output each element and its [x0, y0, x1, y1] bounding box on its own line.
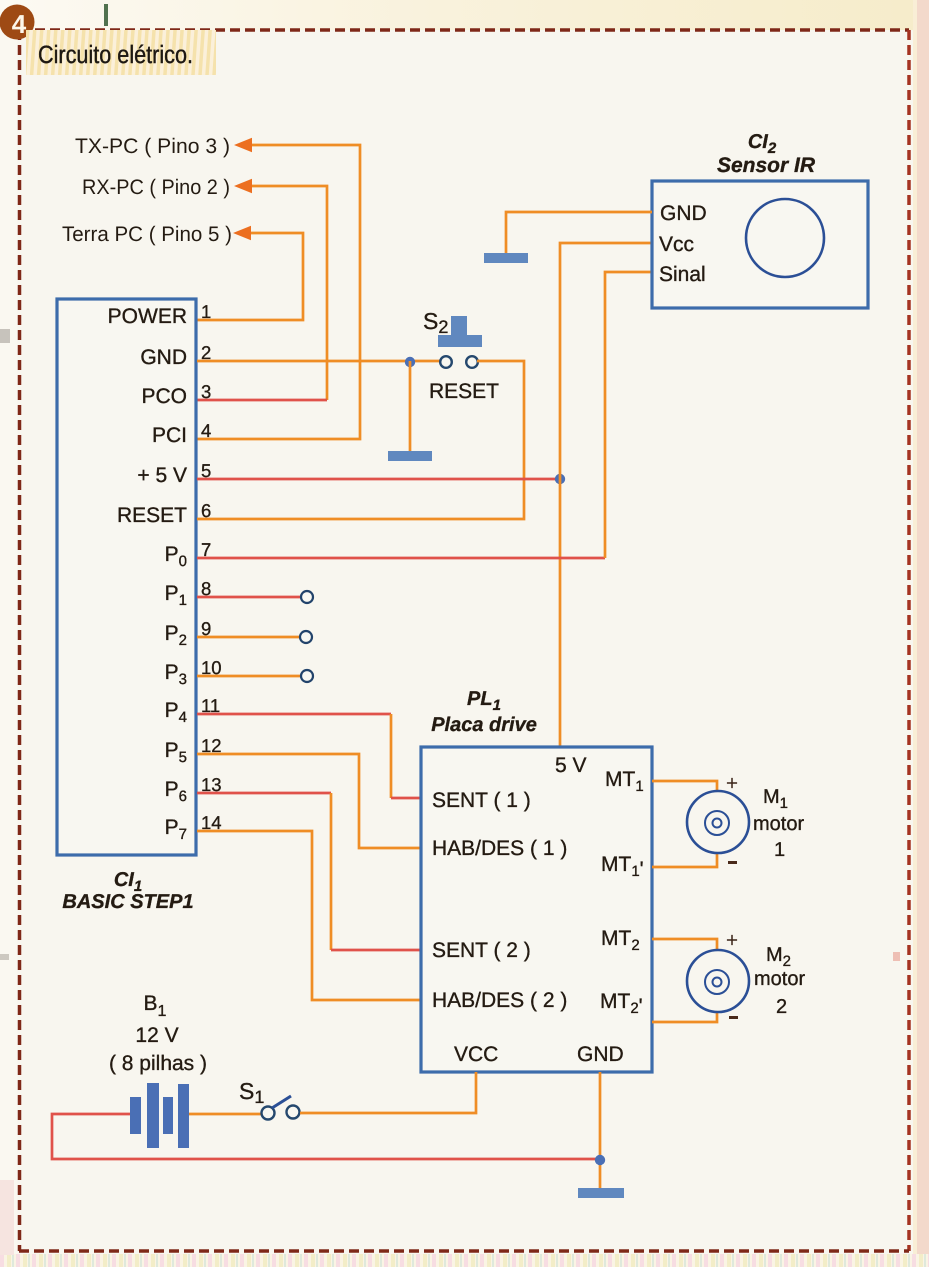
wire S2 to RESET pin 6 [197, 361, 524, 519]
wire MT1' to motor M1 minus [652, 853, 717, 867]
terminal P3 [301, 670, 313, 682]
wire P0 pin 7 [197, 557, 605, 560]
svg-text:Placa drive: Placa drive [431, 714, 537, 736]
CI1 name label [62, 869, 193, 913]
svg-text:Sinal: Sinal [659, 263, 706, 286]
polarity + M1 [726, 772, 738, 795]
svg-text:SENT ( 2 ): SENT ( 2 ) [432, 939, 531, 962]
wire junction to ground [409, 361, 412, 451]
label RESET [429, 380, 499, 403]
wire Terra PC to POWER pin 1 [197, 233, 303, 320]
wire P4 to SENT(1) [197, 714, 421, 798]
CI2 name label [717, 131, 816, 177]
svg-text:HAB/DES ( 2 ): HAB/DES ( 2 ) [432, 989, 567, 1012]
battery B1 label [109, 992, 207, 1075]
wire CI2 GND to ground [506, 212, 652, 253]
svg-text:motor: motor [754, 968, 805, 990]
svg-text:POWER: POWER [108, 305, 187, 328]
label M1 motor 1 [753, 786, 804, 861]
motor M2 [687, 950, 749, 1012]
wire MT2' to motor M2 minus [652, 1012, 717, 1022]
svg-text:SENT ( 1 ): SENT ( 1 ) [432, 789, 531, 812]
battery B1 cells [130, 1083, 189, 1148]
pushbutton S2 [438, 316, 482, 368]
wire P2 pin 9 stub [197, 636, 301, 639]
wire P1 pin 8 stub [197, 596, 301, 599]
svg-text:1: 1 [774, 839, 785, 861]
svg-text:+: + [726, 772, 738, 795]
svg-text:GND: GND [577, 1043, 624, 1066]
svg-text:4: 4 [201, 420, 211, 441]
svg-text:Terra PC ( Pino 5 ): Terra PC ( Pino 5 ) [62, 223, 232, 246]
svg-text:Vcc: Vcc [659, 233, 694, 256]
CI1 pin labels [108, 305, 188, 843]
svg-text:12 V: 12 V [135, 1024, 178, 1047]
svg-text:VCC: VCC [454, 1043, 498, 1066]
svg-text:GND: GND [660, 202, 707, 225]
wire P6 to SENT(2) [197, 793, 421, 950]
wire S1 to VCC of PL1 [300, 1072, 476, 1113]
svg-text:TX-PC ( Pino 3 ): TX-PC ( Pino 3 ) [75, 135, 230, 158]
motor M1 [687, 791, 749, 853]
label TX-PC (Pino 3) [75, 135, 230, 158]
junction node bottom ground [595, 1155, 605, 1165]
svg-text:+: + [726, 929, 738, 952]
svg-text:PCI: PCI [152, 424, 187, 447]
arrowhead Terra [233, 226, 251, 240]
svg-text:Sensor IR: Sensor IR [717, 154, 816, 177]
svg-text:+ 5 V: + 5 V [137, 464, 187, 487]
svg-text:Circuito elétrico.: Circuito elétrico. [38, 41, 193, 69]
figure number badge 4 [0, 5, 35, 40]
svg-text:GND: GND [140, 346, 187, 369]
wire P5 to HAB/DES(1) [197, 754, 421, 848]
label S1 [239, 1078, 264, 1107]
wire 5V rail to PL1 and Vcc [560, 243, 652, 747]
wire PL1 GND to ground [599, 1072, 602, 1188]
ground symbol under S2 [388, 451, 432, 461]
junction node +5V [555, 474, 565, 484]
IC CI1 box [57, 299, 196, 855]
wire P3 pin 10 stub [197, 675, 301, 678]
ground symbol CI2 [484, 253, 528, 263]
svg-text:RX-PC ( Pino 2 ): RX-PC ( Pino 2 ) [82, 176, 230, 199]
svg-text:PCO: PCO [141, 385, 187, 408]
wire battery negative return [52, 1114, 600, 1159]
svg-text:motor: motor [753, 813, 804, 835]
wire Sinal to P0 [605, 272, 652, 558]
wire P7 to HAB/DES(2) [197, 831, 421, 1000]
CI2 sensor lens circle [746, 199, 824, 277]
wire +5V pin 5 [197, 478, 560, 481]
terminal P1 [301, 591, 313, 603]
IC CI2 box [652, 181, 868, 308]
wire PCO pin 3 [197, 399, 327, 402]
CI1 pin numbers 1-14 [201, 301, 222, 833]
wire TX-PC to PCI [197, 145, 360, 439]
svg-text:RESET: RESET [117, 504, 187, 527]
svg-text:1: 1 [201, 301, 211, 322]
caption: Circuito eletrico [26, 30, 216, 75]
svg-text:HAB/DES ( 1 ): HAB/DES ( 1 ) [432, 837, 567, 860]
wire MT2 to motor M2 plus [652, 939, 717, 950]
svg-text:4: 4 [12, 9, 27, 39]
junction node at S2 ground [405, 357, 415, 367]
polarity - M1 [728, 861, 737, 864]
PL1 name label [431, 688, 537, 736]
svg-text:BASIC STEP1: BASIC STEP1 [62, 891, 193, 913]
IC PL1 box [421, 747, 652, 1072]
wire GND pin 2 to S2 [197, 360, 441, 363]
ground symbol bottom [578, 1188, 624, 1198]
arrowhead TX [234, 138, 252, 152]
label S2 [423, 308, 448, 337]
wire RX-PC vertical [249, 186, 327, 400]
PL1 pin labels [432, 754, 644, 1066]
polarity + M2 [726, 929, 738, 952]
label Terra PC (Pino 5) [62, 223, 232, 246]
label M2 motor 2 [754, 944, 805, 1018]
polarity - M2 [729, 1016, 738, 1019]
wire battery positive to S1 [189, 1113, 261, 1116]
label RX-PC (Pino 2) [82, 176, 230, 199]
svg-text:3: 3 [201, 381, 211, 402]
svg-text:5 V: 5 V [555, 754, 587, 777]
svg-text:RESET: RESET [429, 380, 499, 403]
svg-text:2: 2 [776, 996, 787, 1018]
terminal P2 [300, 631, 312, 643]
switch S1 [262, 1096, 300, 1120]
svg-text:( 8 pilhas ): ( 8 pilhas ) [109, 1052, 207, 1075]
arrowhead RX [234, 179, 252, 193]
wire MT1 to motor M1 plus [652, 781, 717, 791]
CI2 pin labels [659, 202, 707, 286]
